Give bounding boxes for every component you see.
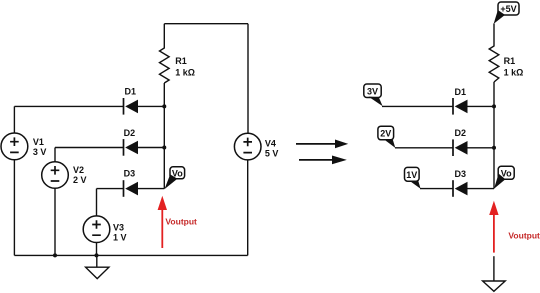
voltage source V1 3 V: [1, 133, 46, 160]
wire: right output bus (node Vo): [493, 82, 495, 188]
junction: V3/ground stub on ground rail: [95, 253, 99, 257]
svg-text:1 kΩ: 1 kΩ: [175, 67, 195, 77]
wire: V2 bottom lead: [54, 188, 56, 255]
voltage source V3 1 V: [83, 216, 126, 243]
diode D1 (left): [14, 87, 164, 115]
resistor R1 (right) with value 1 kOhm: [489, 24, 523, 83]
wire: right ground lead: [493, 256, 495, 281]
svg-text:R1: R1: [175, 56, 187, 66]
wire: V2 top lead: [54, 148, 56, 162]
wire: V3 top lead: [96, 189, 98, 216]
svg-text:D1: D1: [125, 87, 137, 97]
wire: V3 bottom lead: [96, 243, 98, 256]
svg-text:V3: V3: [113, 222, 124, 232]
voltage source V4 5 V: [234, 133, 278, 160]
svg-text:V2: V2: [73, 165, 84, 175]
svg-text:V4: V4: [265, 138, 276, 148]
svg-text:D3: D3: [124, 169, 136, 179]
svg-text:Vo: Vo: [172, 168, 183, 178]
svg-text:R1: R1: [504, 56, 516, 66]
voltage source V2 2 V: [42, 162, 87, 189]
junction: V2 on ground rail: [53, 253, 57, 257]
diode D2 (right): [395, 128, 494, 156]
svg-text:D2: D2: [455, 128, 467, 138]
svg-text:1 V: 1 V: [113, 232, 127, 242]
svg-text:D2: D2: [124, 128, 136, 138]
resistor R1 (left) with value 1 kOhm: [160, 24, 196, 83]
junction: node D2/bus: [162, 146, 166, 150]
wire: V1 bottom lead: [13, 160, 15, 256]
diode D1 (right): [382, 87, 494, 115]
svg-text:+5V: +5V: [500, 4, 516, 14]
svg-text:5 V: 5 V: [265, 148, 279, 158]
input label 2V: [378, 126, 395, 148]
arrow: implication arrow top: [296, 140, 348, 149]
svg-text:2V: 2V: [380, 129, 391, 139]
probe arrow Voutput (right): [489, 201, 540, 253]
diode D3 (left): [97, 169, 165, 197]
svg-text:1 kΩ: 1 kΩ: [504, 67, 524, 77]
svg-text:Voutput: Voutput: [165, 216, 197, 226]
diode D2 (left): [55, 128, 164, 156]
svg-text:Voutput: Voutput: [508, 230, 540, 240]
node label Vo (right): [494, 166, 514, 188]
wire: V4 bottom lead: [247, 160, 249, 256]
input label 1V: [405, 167, 421, 188]
svg-text:3 V: 3 V: [33, 147, 47, 157]
svg-text:V1: V1: [33, 137, 44, 147]
diode D3 (right): [420, 169, 494, 197]
input label 3V: [364, 84, 383, 106]
svg-text:3V: 3V: [367, 86, 378, 96]
svg-text:D3: D3: [455, 169, 467, 179]
wire: left circuit top rail: [164, 23, 248, 25]
junction: node D1/bus (right): [492, 104, 496, 108]
svg-text:1V: 1V: [406, 170, 417, 180]
wire: bottom ground rail: [14, 254, 247, 256]
wire: left output bus (node Vo): [163, 83, 165, 189]
svg-text:2 V: 2 V: [73, 175, 87, 185]
arrow: implication arrow bottom: [299, 156, 347, 165]
junction: node D1/bus: [162, 104, 166, 108]
ground (left): [86, 255, 109, 278]
node label Vo (left): [165, 167, 185, 189]
junction: node D2/bus (right): [492, 146, 496, 150]
probe arrow Voutput (left): [158, 196, 197, 248]
svg-text:D1: D1: [455, 87, 467, 97]
power label +5V: [494, 2, 519, 24]
wire: right branch down to V4: [247, 24, 249, 134]
wire: V1 top lead: [13, 106, 15, 133]
ground (right): [483, 281, 506, 291]
svg-text:Vo: Vo: [501, 169, 512, 179]
